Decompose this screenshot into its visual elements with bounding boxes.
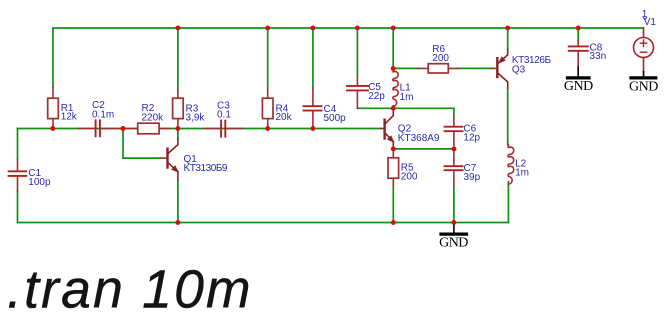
junction Q2 emitter R5 — [391, 146, 396, 151]
wire mid rail — [18, 128, 382, 130]
svg-text:1m: 1m — [515, 168, 529, 179]
junction top C8 — [576, 26, 581, 31]
svg-text:0.1m: 0.1m — [92, 109, 114, 120]
transistor Q2 — [381, 108, 440, 149]
wire L1 drop — [392, 28, 394, 68]
resistor R3 — [173, 90, 206, 129]
voltage source V1 — [634, 9, 657, 72]
capacitor C1 — [9, 159, 51, 192]
ground GND (C8) — [564, 67, 593, 94]
capacitor C7 — [445, 149, 481, 186]
wire C5 to L1 link — [357, 107, 393, 109]
wire Q1 collector stub — [177, 129, 179, 139]
capacitor C8 — [569, 41, 606, 68]
svg-text:22p: 22p — [368, 91, 385, 102]
junction mid C2 — [121, 126, 126, 131]
junction top C4 — [310, 26, 315, 31]
svg-text:3,9k: 3,9k — [186, 113, 206, 124]
svg-text:0.1: 0.1 — [217, 110, 231, 121]
svg-text:GND: GND — [439, 236, 468, 251]
svg-text:GND: GND — [564, 79, 593, 94]
transistor Q3 — [493, 50, 552, 89]
resistor R6 — [419, 44, 458, 73]
junction mid R1 — [50, 126, 55, 131]
capacitor C5 — [347, 76, 385, 108]
junction bottom R5 — [391, 220, 396, 225]
capacitor C4 — [304, 88, 347, 129]
svg-text:V1: V1 — [644, 17, 657, 28]
resistor R4 — [262, 89, 292, 129]
junction top C5 — [355, 26, 360, 31]
wire L2 to bottom corner — [507, 184, 509, 223]
wire C5 drop — [356, 28, 358, 76]
capacitor C6 — [445, 119, 481, 149]
capacitor C2 — [79, 100, 124, 136]
transistor Q1 — [160, 139, 228, 181]
inductor L2 — [508, 145, 529, 185]
junction mid C4 — [310, 126, 315, 131]
wire left drop to R1 — [52, 28, 54, 88]
svg-text:Q3: Q3 — [512, 64, 526, 75]
junction mid R2-R3-Q1 — [175, 126, 180, 131]
junction mid R4 — [265, 126, 270, 131]
ground GND (V1) — [629, 72, 658, 95]
junction bottom Q1 emitter — [175, 220, 180, 225]
wire R5 to bottom — [392, 186, 394, 223]
ground GND (bottom) — [439, 223, 468, 251]
svg-text:220k: 220k — [142, 112, 165, 123]
wire top rail — [53, 27, 644, 29]
svg-text:GND: GND — [629, 80, 658, 95]
wire C7 to bottom — [453, 186, 455, 223]
capacitor C3 — [204, 101, 243, 137]
wire Q1 emitter to bottom — [177, 180, 179, 223]
wire Q2 collector to C6 link — [393, 108, 454, 118]
inductor L1 — [393, 68, 414, 108]
svg-text:33n: 33n — [590, 51, 607, 62]
svg-text:KT3130Б9: KT3130Б9 — [184, 163, 228, 174]
wire Q3 collector to L2 — [507, 89, 509, 145]
wire R3 drop — [177, 28, 179, 90]
wire bottom rail — [18, 222, 509, 224]
wire R4 drop — [267, 28, 269, 89]
wire Q2 emitter to C7 link — [393, 148, 454, 150]
junction top Q3 — [505, 26, 510, 31]
wire R6 run — [393, 67, 492, 69]
svg-text:12p: 12p — [463, 133, 480, 144]
svg-text:200: 200 — [401, 172, 418, 183]
svg-text:20k: 20k — [276, 112, 293, 123]
wire Q1 base branch — [123, 129, 160, 159]
junction L1 bottom Q2 collector — [391, 106, 396, 111]
svg-text:500p: 500p — [324, 113, 347, 124]
resistor R5 — [388, 149, 418, 186]
svg-text:1m: 1m — [400, 92, 414, 103]
junction top R3 — [175, 26, 180, 31]
svg-text:200: 200 — [432, 53, 449, 64]
wire Q3 emitter drop — [507, 28, 509, 50]
junction C6 C7 — [451, 146, 456, 151]
junction top R4 — [265, 26, 270, 31]
wire C1 branch — [17, 129, 19, 223]
svg-text:12k: 12k — [61, 111, 78, 122]
resistor R1 — [48, 88, 78, 129]
svg-text:39p: 39p — [464, 172, 481, 183]
svg-text:100p: 100p — [28, 177, 51, 188]
wire C8 drop — [577, 28, 579, 41]
wire C4 drop — [312, 28, 314, 88]
junction top L1 — [391, 26, 396, 31]
junction bottom GND — [451, 220, 456, 225]
svg-text:KT368A9: KT368A9 — [398, 133, 440, 144]
svg-text:.tran 10m: .tran 10m — [7, 261, 253, 320]
resistor R2 — [126, 103, 171, 134]
junction L1 top R6 — [391, 66, 396, 71]
